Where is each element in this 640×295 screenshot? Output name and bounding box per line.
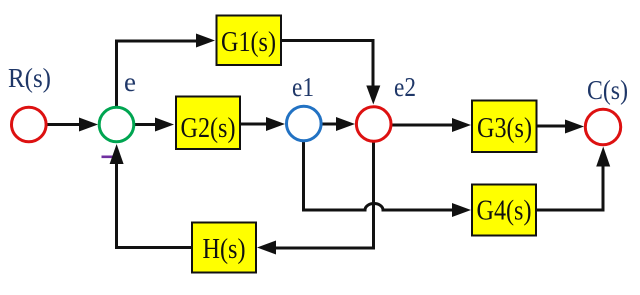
wire e1 to e2 [322,123,337,126]
minus sign at e [102,156,118,159]
summing node e circle [99,107,134,142]
block G2 [176,97,240,150]
arrowhead into e2 [336,117,355,131]
wire e2 down [372,142,375,250]
svg-text:e1: e1 [292,72,314,102]
svg-text:C(s): C(s) [587,75,628,105]
summing node R(s) input circle [12,107,47,142]
wire e to G2 [135,123,157,126]
svg-text:e: e [124,67,136,97]
arrowhead into G3 [452,118,471,132]
wire left rail up toward e [115,163,118,249]
arrowhead into e2 top [366,86,380,105]
arrowhead into e [79,118,98,132]
svg-text:H(s): H(s) [203,234,246,265]
wire R to e [46,123,81,126]
arrowhead into e1 [266,117,285,131]
block G1 [217,16,282,66]
node e1 circle [287,106,322,141]
block H [192,223,256,273]
wire H out to left rail [115,246,191,249]
svg-text:R(s): R(s) [8,63,51,93]
wire down into e2 top [372,39,375,87]
arrowhead into G4 [452,203,471,217]
svg-text:e2: e2 [394,72,416,102]
svg-text:G4(s): G4(s) [477,196,532,227]
wire G4 to corner below C [536,209,605,212]
wire G3 to C [537,125,566,128]
svg-text:G2(s): G2(s) [181,113,236,144]
block G4 [472,185,536,236]
wire G1 to corner above e2 [281,39,375,42]
arrowhead into C [565,120,584,134]
wire top rail to G1 [115,40,197,43]
arrowhead into H right side [257,241,276,255]
wire e1 branch right to G4 with hop over e2 line [302,204,453,211]
wire up into C bottom [602,165,605,212]
node e2 circle [356,107,391,142]
wire G2 to e1 [240,123,267,126]
node C(s) output circle [585,109,620,144]
arrowhead into G1 [196,34,215,48]
arrowhead into e bottom [110,144,124,164]
block G3 [472,101,537,153]
svg-text:G1(s): G1(s) [221,27,276,58]
arrowhead into C bottom [596,147,610,167]
wire e1 down [302,142,305,212]
svg-text:G3(s): G3(s) [477,113,532,144]
arrowhead into G2 [155,118,174,132]
wire e2 to G3 [392,124,453,127]
wire e2 branch left to H [276,247,375,250]
wire e up to top rail [115,40,118,108]
